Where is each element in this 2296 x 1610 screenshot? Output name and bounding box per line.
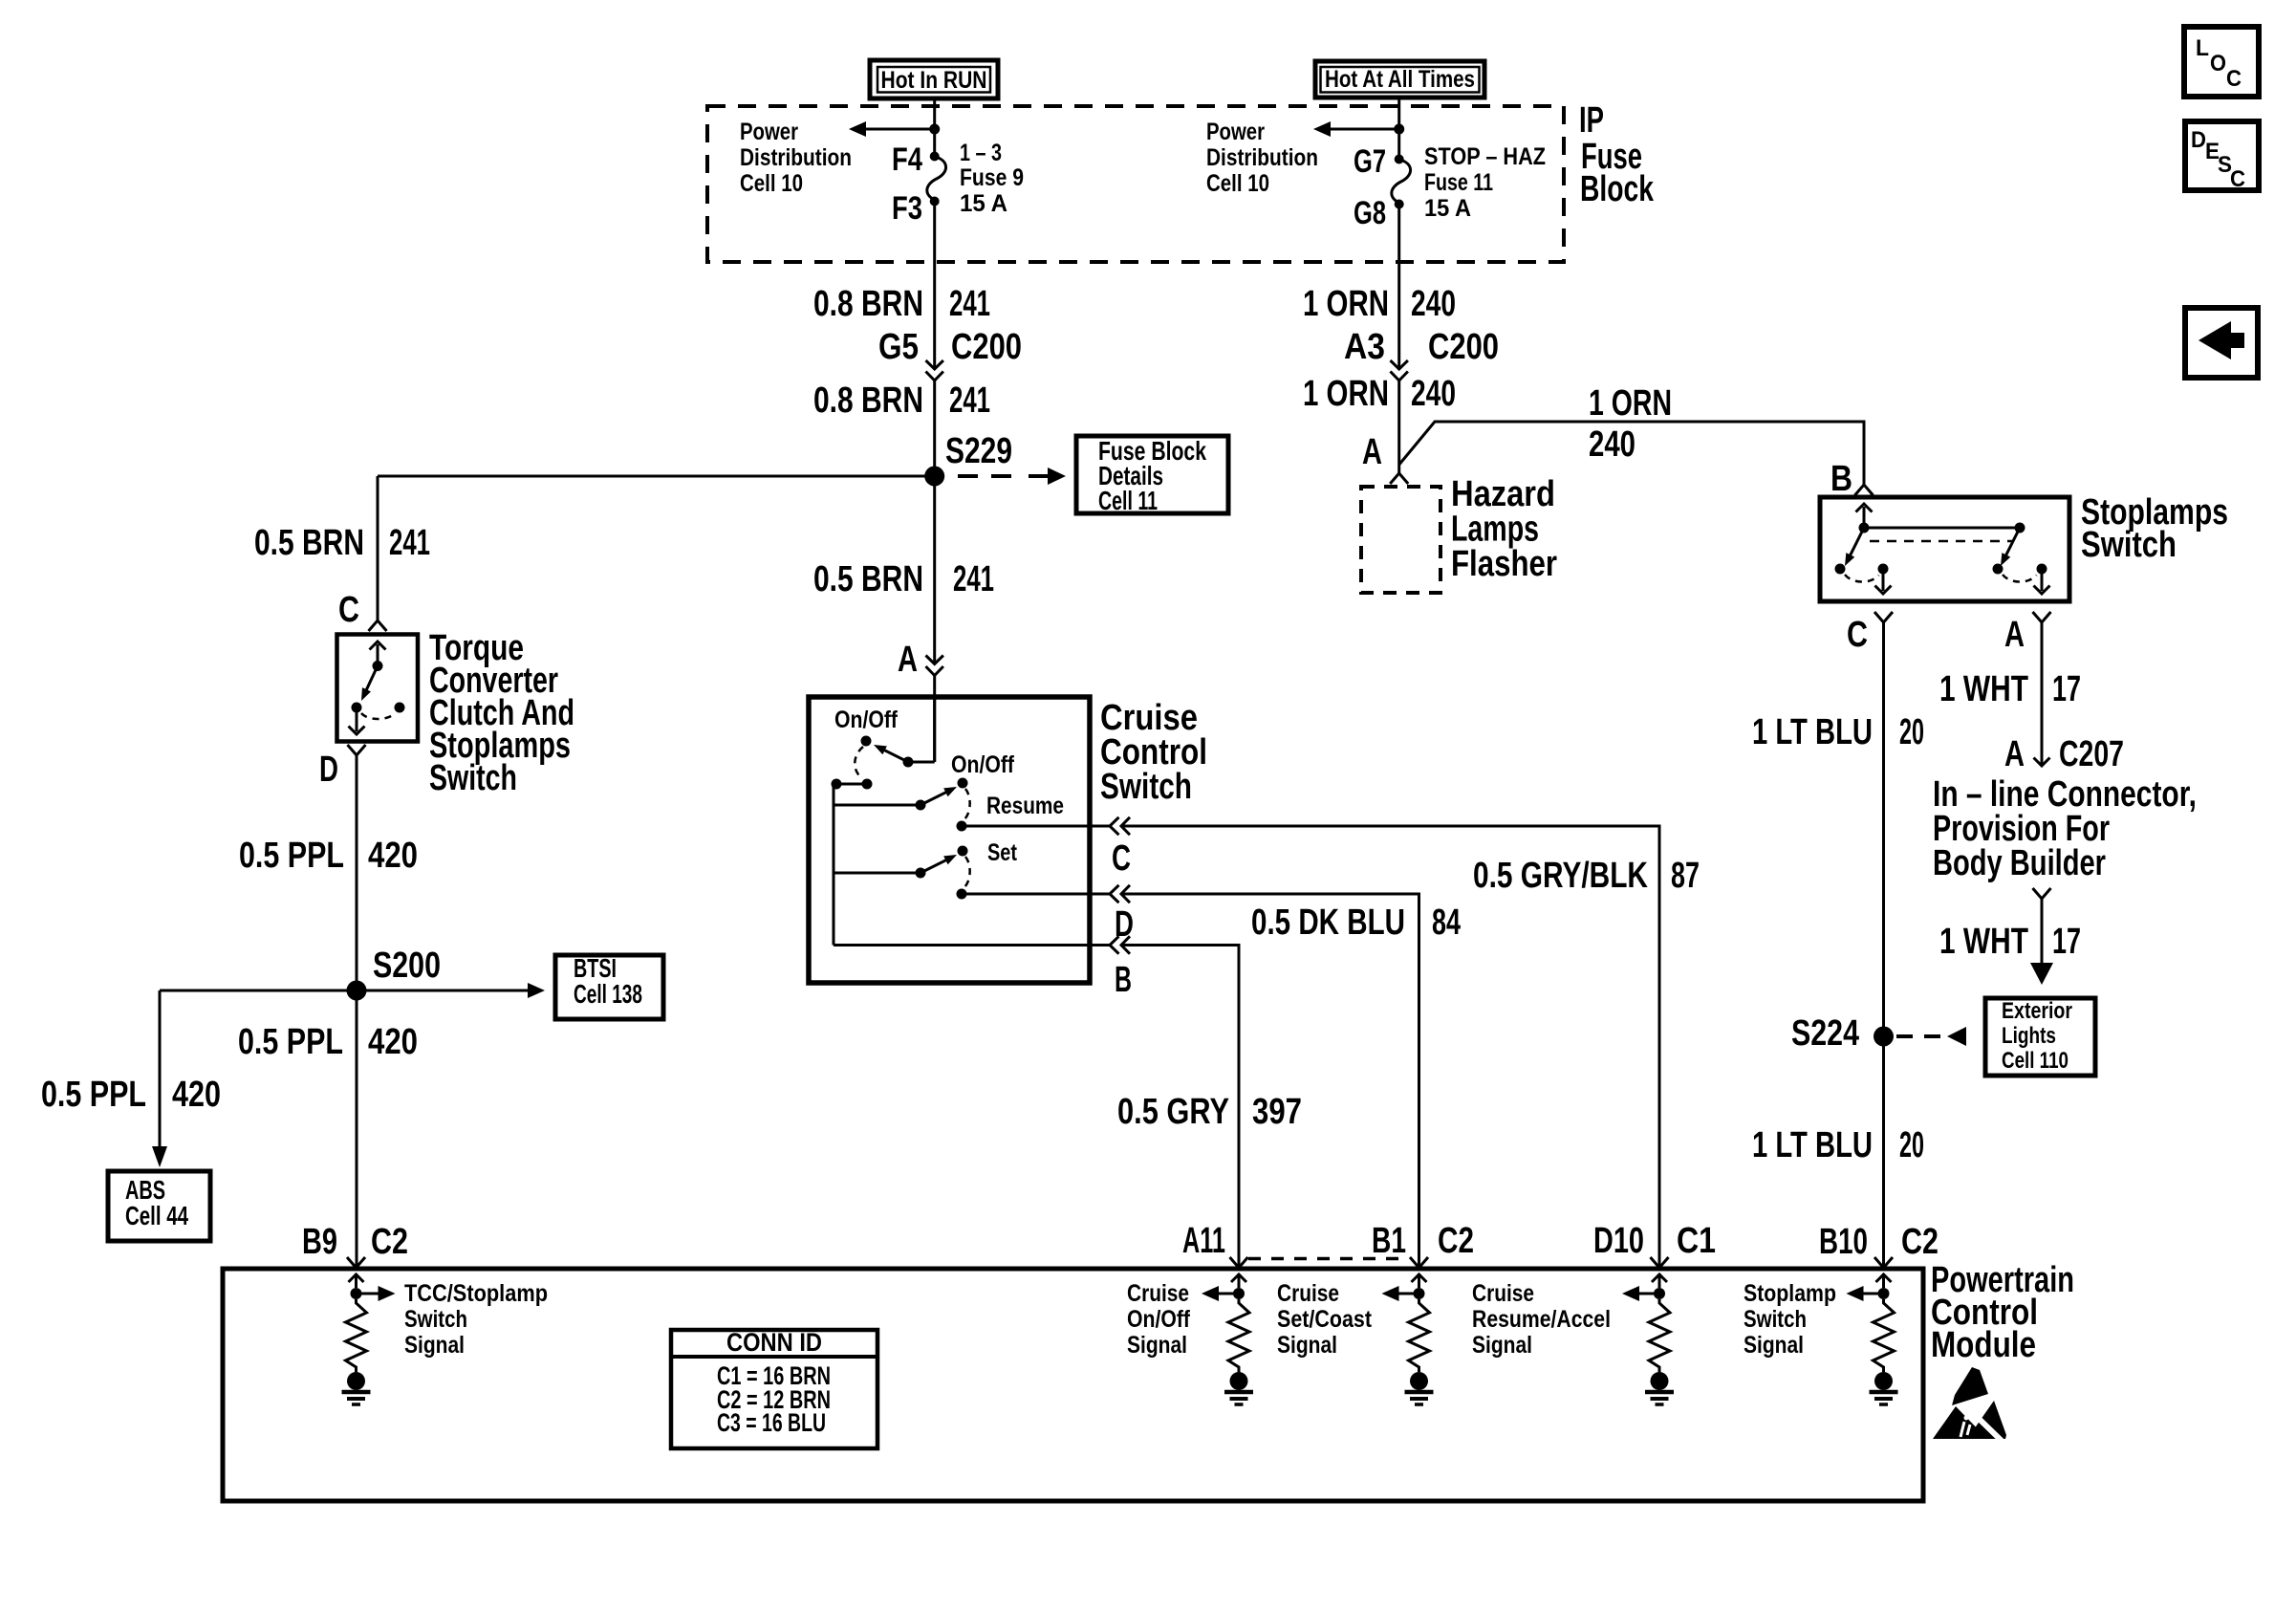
wire 0.5 PPL 420 (S200 to PCM B9): [356, 990, 358, 1268]
svg-text:20: 20: [1899, 712, 1924, 752]
svg-text:Switch: Switch: [1744, 1306, 1807, 1333]
svg-text:1 ORN: 1 ORN: [1303, 374, 1389, 414]
svg-text:Switch: Switch: [429, 758, 517, 798]
fuse 11 element: [1392, 160, 1411, 205]
svg-text:B: B: [1830, 459, 1852, 499]
arrow to BTSI Cell 138: [357, 990, 529, 992]
svg-text:C2: C2: [371, 1222, 408, 1262]
svg-text:241: 241: [949, 381, 990, 421]
svg-text:C3 = 16 BLU: C3 = 16 BLU: [717, 1408, 826, 1437]
svg-text:B1: B1: [1372, 1221, 1406, 1261]
PCM input A11: pullup resistor and ground, Cruise On/Off Signal: [1238, 1273, 1241, 1288]
svg-text:STOP – HAZ: STOP – HAZ: [1424, 143, 1546, 170]
svg-text:TCC/Stoplamp: TCC/Stoplamp: [404, 1280, 548, 1307]
arrow to Power Distribution Cell 10 (right): [1326, 128, 1399, 131]
svg-text:0.8 BRN: 0.8 BRN: [813, 284, 923, 324]
svg-text:Exterior: Exterior: [2002, 998, 2072, 1024]
TCC switch dashed throw arc: [361, 713, 395, 719]
svg-text:D10: D10: [1593, 1221, 1644, 1261]
svg-text:Switch: Switch: [2081, 525, 2177, 565]
svg-text:O: O: [2210, 51, 2226, 76]
svg-text:0.5 BRN: 0.5 BRN: [813, 559, 923, 599]
svg-text:Module: Module: [1931, 1325, 2036, 1365]
svg-text:Hot In RUN: Hot In RUN: [881, 67, 987, 94]
PCM input B9: pullup resistor and ground, TCC/Stoplamp Switch Signal: [355, 1273, 357, 1288]
wire 0.5 BRN 241 branch (S229 to TCC switch): [378, 475, 935, 478]
svg-text:1 LT BLU: 1 LT BLU: [1752, 712, 1873, 752]
svg-text:420: 420: [172, 1075, 221, 1115]
fuse F11 terminal G8: [1395, 200, 1404, 209]
svg-text:C: C: [2226, 66, 2242, 92]
wire 1 LT BLU 20 (stoplamps C to S224): [1882, 622, 1885, 1268]
svg-text:1 – 3: 1 – 3: [960, 140, 1002, 166]
svg-text:Distribution: Distribution: [740, 144, 852, 171]
svg-text:241: 241: [949, 284, 990, 324]
svg-text:On/Off: On/Off: [951, 751, 1015, 778]
svg-text:Cell 10: Cell 10: [1206, 170, 1269, 197]
svg-text:Block: Block: [1580, 169, 1655, 209]
svg-text:Power: Power: [1206, 119, 1265, 145]
PCM input B10: pullup resistor and ground, Stoplamp Switch Signal: [1882, 1273, 1885, 1288]
svg-text:17: 17: [2052, 922, 2081, 962]
corner icon box back-arrow: [2185, 308, 2258, 378]
svg-text:240: 240: [1589, 424, 1635, 465]
svg-text:1 ORN: 1 ORN: [1303, 284, 1389, 324]
svg-text:Signal: Signal: [1744, 1332, 1804, 1359]
svg-text:B10: B10: [1819, 1222, 1868, 1262]
cruise on/off master: dashed throw arc: [855, 747, 863, 778]
svg-text:0.5 PPL: 0.5 PPL: [239, 836, 344, 876]
svg-text:S229: S229: [945, 431, 1012, 471]
svg-text:1 ORN: 1 ORN: [1589, 383, 1672, 424]
svg-text:A11: A11: [1182, 1221, 1225, 1261]
cruise resume switch: output contact to C: [957, 821, 967, 832]
svg-text:C: C: [338, 590, 359, 630]
junction node left: [929, 124, 940, 135]
cruise switch left rail: [833, 784, 835, 946]
wire 0.5 DK BLU 84 (cruise D to PCM B1): [962, 893, 1110, 896]
svg-text:0.5 GRY: 0.5 GRY: [1117, 1092, 1229, 1132]
cruise resume switch: dashed throw arc: [964, 789, 970, 820]
svg-text:C: C: [2230, 166, 2245, 192]
component box Stoplamps Switch: [1820, 497, 2069, 601]
arrow into Exterior Lights: [2030, 963, 2053, 985]
svg-text:C207: C207: [2059, 734, 2124, 774]
svg-text:397: 397: [1252, 1092, 1302, 1132]
fuse F9 terminal F4: [930, 152, 940, 162]
cruise on/off master: OFF contacts: [832, 779, 842, 790]
svg-text:F3: F3: [892, 190, 922, 227]
splice S224: [1874, 1027, 1894, 1047]
PCM input B1: pullup resistor and ground, Cruise Set/Coast Signal: [1418, 1273, 1420, 1288]
svg-text:S200: S200: [373, 946, 441, 986]
svg-text:C: C: [1112, 838, 1131, 879]
svg-text:L: L: [2196, 35, 2209, 61]
stoplamps switch: bar to second pole: [1864, 527, 2020, 530]
flag box "Hot At All Times": [1315, 61, 1484, 98]
dashed reference arrow to Fuse Block Details: [958, 474, 1021, 478]
wire 0.5 GRY 397 (cruise B to PCM A11): [834, 944, 1110, 946]
cruise set switch: output contact to D: [957, 889, 967, 900]
svg-text:Resume/Accel: Resume/Accel: [1472, 1306, 1611, 1333]
svg-text:G5: G5: [878, 327, 919, 367]
stoplamps switch: left contacts: [1835, 564, 1846, 575]
wire from Hot In RUN into fuse block: [933, 98, 936, 157]
terminal D of TCC switch: [348, 745, 366, 755]
wire 0.5 PPL 420 (TCC switch D to S200): [356, 755, 358, 990]
svg-text:0.5 PPL: 0.5 PPL: [238, 1022, 343, 1062]
wire 0.8 BRN 241 (fuse to C200): [933, 202, 936, 370]
svg-text:240: 240: [1411, 284, 1456, 324]
cruise on/off master: pivot and arm: [903, 757, 914, 768]
svg-text:C2: C2: [1438, 1221, 1474, 1261]
svg-text:15 A: 15 A: [1424, 195, 1471, 222]
reference box Exterior Lights Cell 110: [1985, 998, 2095, 1076]
TCC switch internals: contact arrow up: [377, 644, 379, 666]
svg-text:IP: IP: [1579, 100, 1604, 141]
svg-text:B: B: [1115, 960, 1132, 1000]
cruise resume switch: On/Off contact: [958, 778, 968, 789]
cruise switch: feed wire inside box: [933, 697, 936, 762]
reference box Fuse Block Details Cell 11: [1076, 436, 1228, 513]
TCC switch movable arm: [366, 666, 378, 692]
wire 0.8 BRN 241 (C200 to S229): [933, 381, 936, 476]
svg-text:Cruise: Cruise: [1127, 1280, 1189, 1307]
wire 1 WHT 17 (C207 to Exterior Lights): [2033, 888, 2051, 899]
svg-text:Cell 138: Cell 138: [574, 979, 642, 1009]
svg-text:Resume: Resume: [986, 793, 1064, 819]
svg-text:Fuse 9: Fuse 9: [960, 164, 1024, 191]
svg-text:Cruise: Cruise: [1277, 1280, 1339, 1307]
svg-text:Switch: Switch: [1100, 767, 1192, 807]
svg-text:Cell 44: Cell 44: [125, 1201, 188, 1230]
fuse F9 terminal F3: [930, 197, 940, 207]
CONN ID table: [671, 1330, 877, 1448]
svg-text:0.5 PPL: 0.5 PPL: [41, 1075, 146, 1115]
svg-text:Set/Coast: Set/Coast: [1277, 1306, 1373, 1333]
svg-text:On/Off: On/Off: [834, 707, 899, 733]
cruise on/off master: ON contact: [861, 736, 872, 747]
svg-text:A: A: [2004, 615, 2025, 655]
stoplamps switch: ganged dashed link: [1870, 540, 2014, 543]
arrow to Power Distribution Cell 10 (left): [861, 128, 935, 131]
wire 1 ORN 240 branch to stoplamps switch B: [1399, 422, 1864, 485]
terminal C of stoplamps switch: [1874, 612, 1893, 622]
svg-text:0.5 DK BLU: 0.5 DK BLU: [1251, 903, 1405, 943]
svg-text:Signal: Signal: [1472, 1332, 1532, 1359]
svg-text:Switch: Switch: [404, 1306, 467, 1333]
wire 0.5 PPL 420 branch to ABS: [160, 990, 357, 992]
svg-text:Stoplamp: Stoplamp: [1744, 1280, 1836, 1307]
svg-text:1 LT BLU: 1 LT BLU: [1752, 1125, 1873, 1165]
cruise set switch: feed and pivot: [834, 872, 921, 875]
svg-text:Power: Power: [740, 119, 798, 145]
svg-text:15 A: 15 A: [960, 190, 1007, 217]
svg-text:A: A: [2004, 734, 2025, 774]
svg-text:Hot At All Times: Hot At All Times: [1325, 66, 1475, 93]
svg-text:Signal: Signal: [404, 1332, 465, 1359]
svg-text:C200: C200: [951, 327, 1022, 367]
wire 1 WHT 17 (stoplamps A to C207): [2041, 622, 2044, 764]
svg-text:1 WHT: 1 WHT: [1939, 669, 2028, 709]
svg-text:C: C: [1847, 615, 1868, 655]
svg-text:C1: C1: [1677, 1221, 1716, 1261]
terminal A of stoplamps switch: [2033, 612, 2051, 622]
corner icon box DESC: [2185, 121, 2259, 190]
reference box BTSI Cell 138: [555, 955, 663, 1019]
IP fuse block dashed boundary: [707, 106, 1564, 262]
svg-text:0.5 GRY/BLK: 0.5 GRY/BLK: [1473, 856, 1648, 896]
svg-text:Flasher: Flasher: [1451, 544, 1557, 584]
stoplamps switch: input contact arrow up: [1863, 507, 1866, 528]
svg-text:Signal: Signal: [1277, 1332, 1337, 1359]
component box Cruise Control Switch: [809, 697, 1090, 983]
svg-text:G7: G7: [1354, 143, 1386, 180]
svg-text:241: 241: [389, 523, 430, 563]
dashed reference arrow to Exterior Lights: [1896, 1034, 1940, 1038]
svg-text:420: 420: [368, 1022, 418, 1062]
svg-text:D: D: [2191, 127, 2206, 153]
cruise resume switch: feed and pivot: [834, 804, 921, 807]
reference box ABS Cell 44: [108, 1171, 210, 1241]
splice S229: [924, 467, 944, 487]
svg-text:Distribution: Distribution: [1206, 144, 1318, 171]
component box Torque Converter Clutch And Stoplamps Switch: [337, 635, 419, 742]
svg-text:0.5 BRN: 0.5 BRN: [254, 523, 364, 563]
svg-text:241: 241: [953, 559, 994, 599]
svg-text:17: 17: [2052, 669, 2081, 709]
svg-text:0.8 BRN: 0.8 BRN: [813, 381, 923, 421]
wire 1 ORN 240 (C200 to hazard flasher A): [1397, 381, 1400, 473]
svg-text:240: 240: [1411, 374, 1456, 414]
svg-text:1 WHT: 1 WHT: [1939, 922, 2028, 962]
cruise set switch: Set contact: [958, 846, 968, 857]
corner icon box LOC: [2184, 27, 2259, 97]
svg-text:A3: A3: [1344, 327, 1385, 367]
component box Powertrain Control Module: [223, 1269, 1923, 1501]
TCC switch alternate contact: [395, 703, 405, 713]
svg-text:C2: C2: [1901, 1222, 1939, 1262]
svg-text:F4: F4: [892, 141, 922, 178]
cruise set switch: dashed throw arc: [964, 857, 970, 888]
svg-text:A: A: [898, 640, 918, 680]
svg-text:A: A: [1362, 432, 1382, 472]
fuse F11 terminal G7: [1395, 155, 1404, 164]
svg-text:On/Off: On/Off: [1127, 1306, 1191, 1333]
wire from Hot At All Times into fuse block: [1397, 98, 1400, 160]
TCC switch lower contact and output arrow: [352, 703, 362, 713]
stoplamps switch: right contacts: [1993, 564, 2004, 575]
svg-text:Body Builder: Body Builder: [1933, 843, 2106, 883]
flag box "Hot In RUN": [870, 60, 998, 98]
svg-text:B9: B9: [302, 1222, 337, 1262]
svg-text:420: 420: [368, 836, 418, 876]
svg-text:20: 20: [1899, 1125, 1924, 1165]
svg-text:Cell 11: Cell 11: [1098, 486, 1158, 515]
svg-text:S224: S224: [1791, 1013, 1859, 1054]
svg-text:C200: C200: [1428, 327, 1499, 367]
dashed box Hazard Lamps Flasher: [1361, 487, 1440, 593]
svg-text:D: D: [319, 750, 338, 790]
dashed connector link A11-B1: [1248, 1257, 1409, 1261]
svg-text:84: 84: [1432, 903, 1461, 943]
svg-text:Cell 110: Cell 110: [2002, 1048, 2069, 1074]
junction node right: [1394, 124, 1404, 135]
svg-text:Cell 10: Cell 10: [740, 170, 803, 197]
svg-text:Set: Set: [987, 839, 1018, 866]
wire 0.5 GRY/BLK 87 (cruise C to PCM D10): [962, 825, 1110, 828]
svg-text:Fuse 11: Fuse 11: [1424, 169, 1493, 196]
svg-text:Cruise: Cruise: [1472, 1280, 1534, 1307]
PCM input D10: pullup resistor and ground, Cruise Resume/Accel Signal: [1658, 1273, 1661, 1288]
svg-text:Lights: Lights: [2002, 1023, 2056, 1049]
splice S200: [347, 981, 367, 1001]
ESD sensitivity symbol: [1952, 1367, 1988, 1405]
stoplamps switch: right movable arm: [2005, 528, 2020, 556]
wire 1 ORN 240 (fuse to C200): [1397, 205, 1400, 370]
svg-text:Signal: Signal: [1127, 1332, 1187, 1359]
svg-text:CONN ID: CONN ID: [726, 1328, 822, 1357]
wire 0.5 BRN 241 (S229 down to cruise switch A): [933, 476, 936, 664]
stoplamps switch: left movable arm: [1850, 528, 1864, 556]
svg-text:G8: G8: [1354, 195, 1386, 231]
fuse 9 element: [927, 157, 946, 202]
svg-text:87: 87: [1671, 856, 1700, 896]
